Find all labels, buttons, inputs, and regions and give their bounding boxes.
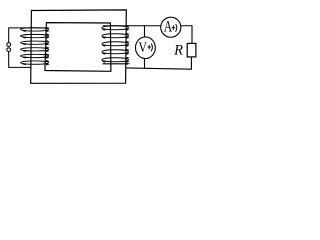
svg-text:A: A: [164, 18, 173, 35]
svg-text:R: R: [173, 43, 183, 59]
svg-text:V: V: [139, 40, 148, 56]
